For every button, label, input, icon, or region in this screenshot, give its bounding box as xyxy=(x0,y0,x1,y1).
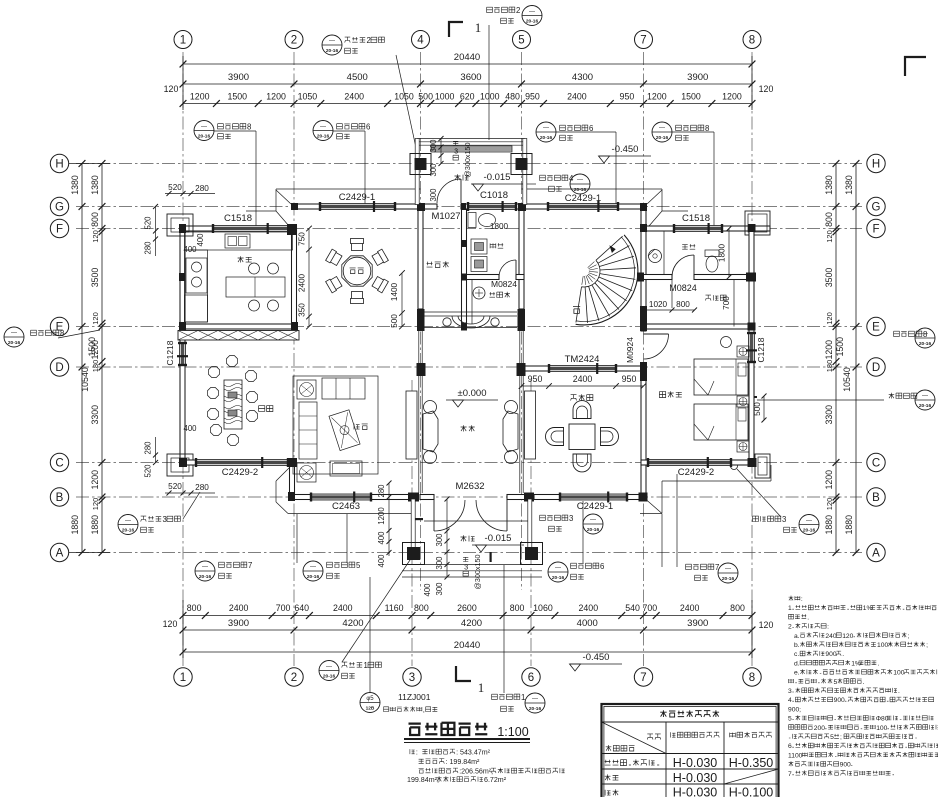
svg-text:3900: 3900 xyxy=(228,618,249,629)
structural columns xyxy=(179,203,757,502)
bottom dimension row detail xyxy=(180,603,756,619)
svg-text:;: ; xyxy=(926,642,928,649)
svg-text:H: H xyxy=(872,159,880,171)
svg-text:3900: 3900 xyxy=(687,72,708,83)
svg-text:5: 5 xyxy=(834,679,838,686)
svg-text:20-16: 20-16 xyxy=(587,527,600,533)
svg-text:900: 900 xyxy=(825,651,836,658)
svg-text:M0824: M0824 xyxy=(669,283,697,293)
svg-text:520: 520 xyxy=(144,464,153,478)
svg-text:5: 5 xyxy=(356,561,361,570)
svg-text:7: 7 xyxy=(715,563,719,572)
label elder room xyxy=(659,391,681,397)
svg-text:1500: 1500 xyxy=(227,92,247,102)
svg-text:120: 120 xyxy=(842,633,853,640)
svg-text:—: — xyxy=(201,124,207,130)
svg-text:300: 300 xyxy=(435,582,444,596)
wall x643 D to B xyxy=(641,366,646,500)
svg-text:800: 800 xyxy=(90,212,100,227)
level -0.450 bottom xyxy=(570,652,623,671)
corner mark top right xyxy=(905,57,926,76)
north porch column frames and cores xyxy=(410,154,532,175)
svg-text:e.: e. xyxy=(794,670,800,677)
svg-text:7: 7 xyxy=(640,35,646,47)
svg-text:C2463: C2463 xyxy=(332,501,360,512)
svg-text:900: 900 xyxy=(834,697,845,704)
svg-text:C: C xyxy=(872,458,880,470)
wall F kitchen with window C1518 xyxy=(180,226,213,231)
label dining xyxy=(350,268,364,274)
top dimension row detail xyxy=(164,84,774,107)
svg-text:1: 1 xyxy=(478,680,485,695)
right dimension column outer xyxy=(835,160,859,556)
svg-text:4000: 4000 xyxy=(577,618,598,629)
top dimension row axis spans xyxy=(180,72,756,87)
svg-text:1060: 1060 xyxy=(533,603,553,613)
section marker 1 top xyxy=(449,20,481,37)
canopy outline southeast terrace xyxy=(640,465,771,567)
svg-text:620: 620 xyxy=(460,92,475,102)
svg-text:2400: 2400 xyxy=(298,273,307,292)
svg-text:240: 240 xyxy=(825,633,836,640)
svg-text:4200: 4200 xyxy=(342,618,363,629)
svg-text:520: 520 xyxy=(168,482,182,491)
left dimension column outer xyxy=(68,160,110,556)
dims 1400 500 leisure bar xyxy=(390,270,405,329)
svg-text:900: 900 xyxy=(840,762,851,769)
stair hall east wall x643 xyxy=(641,209,646,331)
svg-text:300: 300 xyxy=(429,139,438,153)
svg-text:—: — xyxy=(543,126,549,132)
svg-text:C2429-1: C2429-1 xyxy=(565,193,601,204)
svg-text:120: 120 xyxy=(825,498,834,511)
svg-text:1880: 1880 xyxy=(90,515,100,535)
svg-text:400: 400 xyxy=(196,233,205,247)
callout waiqiang dayang 5 bottom-left xyxy=(303,514,361,581)
wall axis4 vertical bar room west xyxy=(418,209,423,309)
closet walls xyxy=(672,280,734,327)
svg-text:3900: 3900 xyxy=(228,72,249,83)
svg-text:300: 300 xyxy=(435,556,444,570)
svg-text:7: 7 xyxy=(640,672,646,684)
svg-text:M0824: M0824 xyxy=(491,279,517,289)
svg-text:100: 100 xyxy=(876,725,887,732)
svg-text:.: . xyxy=(898,688,900,695)
callout 11ZJ001 step detail xyxy=(360,577,437,714)
columns at E bar xyxy=(417,309,425,331)
svg-text:500: 500 xyxy=(418,92,433,102)
svg-text:1: 1 xyxy=(788,605,792,612)
basin niche wall master bath xyxy=(663,231,665,275)
svg-text:—: — xyxy=(329,39,335,45)
svg-text:H-0.030: H-0.030 xyxy=(673,786,718,797)
callout waiqiang dayang 8 top-left xyxy=(194,121,256,227)
elder room beds xyxy=(694,359,748,440)
planter hatch band below E xyxy=(178,331,299,341)
svg-text:-0.450: -0.450 xyxy=(612,144,639,155)
label leisure bar xyxy=(427,261,449,267)
floor level table xyxy=(602,704,779,797)
public wc fixtures xyxy=(471,239,487,272)
south porch column frames xyxy=(403,543,543,565)
window C1218 west wall xyxy=(180,343,186,365)
svg-text:—: — xyxy=(806,518,812,524)
wall gongwei west x464 xyxy=(462,209,467,327)
svg-text:1000: 1000 xyxy=(480,92,500,102)
svg-text:C2429-2: C2429-2 xyxy=(222,467,258,478)
svg-text:1200: 1200 xyxy=(824,340,834,360)
wall B door opening M2632 and right part xyxy=(420,495,434,500)
svg-text:M2632: M2632 xyxy=(455,481,484,492)
svg-text:5: 5 xyxy=(788,716,792,723)
svg-text:—: — xyxy=(11,331,17,337)
svg-text:20-16: 20-16 xyxy=(198,134,211,140)
svg-text:120: 120 xyxy=(164,84,179,94)
dims 520 280 bottom-left xyxy=(165,482,215,496)
wall G porch section xyxy=(423,204,437,209)
svg-text:C1218: C1218 xyxy=(756,337,766,362)
window C1018 on G xyxy=(468,204,516,210)
svg-text:700: 700 xyxy=(276,603,291,613)
svg-text:12B: 12B xyxy=(366,706,375,712)
svg-text:4200: 4200 xyxy=(461,618,482,629)
svg-text:700: 700 xyxy=(643,603,658,613)
svg-text:120: 120 xyxy=(91,230,100,243)
callout waiqiang dayang 8 left E xyxy=(4,327,100,347)
svg-text:2: 2 xyxy=(516,6,520,15)
svg-text:20-16: 20-16 xyxy=(552,575,565,581)
dims 950 2400 950 under TM2424 xyxy=(519,374,647,389)
master bath partition y277 xyxy=(641,275,672,280)
svg-text:C2429-1: C2429-1 xyxy=(577,501,613,512)
svg-text:—: — xyxy=(532,697,538,703)
callout waiqiang dayang 8 right E xyxy=(894,328,935,348)
window C2429-1 on G left xyxy=(320,204,395,210)
svg-text:8: 8 xyxy=(247,123,251,132)
svg-text:1400: 1400 xyxy=(390,282,399,301)
label C2429-1 left xyxy=(339,192,375,203)
wall B left with window C2463 xyxy=(290,495,312,500)
gongwei partition wall y277 xyxy=(464,275,499,280)
svg-text:1%: 1% xyxy=(851,660,861,667)
svg-text:280: 280 xyxy=(195,483,209,492)
callout waiqiang dayang 4 porch xyxy=(524,174,590,194)
svg-text:1200: 1200 xyxy=(647,92,667,102)
master bath toilet xyxy=(705,250,719,272)
svg-text:1020: 1020 xyxy=(649,300,668,309)
dims 520 280 vertical near C xyxy=(144,437,159,478)
svg-text:1200: 1200 xyxy=(266,92,286,102)
svg-text:180: 180 xyxy=(825,360,834,373)
svg-text:1000: 1000 xyxy=(435,92,455,102)
svg-text:1: 1 xyxy=(180,672,186,684)
dim 1800 master bath xyxy=(718,226,732,280)
svg-text:180: 180 xyxy=(91,360,100,373)
svg-text:.: . xyxy=(863,679,865,686)
east wing E wall xyxy=(641,324,754,329)
svg-text:H-0.030: H-0.030 xyxy=(673,771,718,785)
svg-text:6: 6 xyxy=(600,562,604,571)
svg-text:-0.015: -0.015 xyxy=(484,172,511,183)
svg-text:G: G xyxy=(872,202,881,214)
chimney northeast xyxy=(745,211,770,235)
svg-text:20-16: 20-16 xyxy=(526,19,539,25)
callout zaoxingzhu 2 top xyxy=(322,35,418,157)
svg-text:20-16: 20-16 xyxy=(323,674,336,680)
porch side sub dims xyxy=(377,481,392,568)
notes shuoming right xyxy=(788,596,938,778)
svg-text:3600: 3600 xyxy=(460,72,481,83)
svg-text:20-16: 20-16 xyxy=(122,528,135,534)
chimney southeast xyxy=(755,454,770,478)
svg-text:—: — xyxy=(922,394,928,400)
svg-text:: 199.84m²: : 199.84m² xyxy=(446,758,481,766)
svg-text:20440: 20440 xyxy=(454,640,480,651)
svg-text:120: 120 xyxy=(825,230,834,243)
svg-text:D: D xyxy=(55,362,63,374)
living room sofa xyxy=(299,378,365,459)
level -0.450 top xyxy=(599,144,652,163)
svg-text:,: , xyxy=(423,707,425,714)
svg-text:3: 3 xyxy=(788,688,792,695)
living room coffee table xyxy=(330,461,362,476)
callout zaoxingzhu 3 left B xyxy=(118,492,200,535)
svg-text:d.: d. xyxy=(794,660,800,667)
callout waiqiang dayang 6 top-right xyxy=(536,122,616,204)
svg-text:400: 400 xyxy=(377,531,386,545)
svg-text:φ5: φ5 xyxy=(366,696,374,702)
master bath washbasin xyxy=(648,249,662,263)
svg-text:2: 2 xyxy=(291,35,297,47)
svg-text:640: 640 xyxy=(294,603,309,613)
svg-text:—: — xyxy=(320,124,326,130)
svg-text:1880: 1880 xyxy=(844,515,854,535)
svg-text:1880: 1880 xyxy=(824,515,834,535)
svg-text:1380: 1380 xyxy=(70,175,80,195)
svg-text:20-16: 20-16 xyxy=(199,574,212,580)
svg-text:TM2424: TM2424 xyxy=(565,354,600,365)
svg-text:280: 280 xyxy=(144,441,153,455)
svg-text:F: F xyxy=(872,224,879,236)
door M1027 leaf and arc xyxy=(437,179,461,203)
svg-text:950: 950 xyxy=(525,92,540,102)
svg-text:2400: 2400 xyxy=(573,374,593,384)
svg-text:20-16: 20-16 xyxy=(803,528,816,534)
label living room xyxy=(354,424,368,430)
svg-text:20-16: 20-16 xyxy=(722,576,735,582)
svg-text:6: 6 xyxy=(528,672,534,684)
svg-text:C2429-1: C2429-1 xyxy=(339,192,375,203)
svg-text:800: 800 xyxy=(730,603,745,613)
svg-text:350: 350 xyxy=(298,303,307,317)
svg-text:1500: 1500 xyxy=(835,337,845,357)
svg-text:2400: 2400 xyxy=(579,603,599,613)
svg-text:120: 120 xyxy=(91,498,100,511)
svg-text:2: 2 xyxy=(788,624,792,631)
svg-text:10540: 10540 xyxy=(842,367,852,392)
svg-text:2400: 2400 xyxy=(229,603,249,613)
svg-text:—: — xyxy=(555,566,561,572)
svg-text:3: 3 xyxy=(569,514,573,523)
right dimension column inner xyxy=(824,160,839,556)
svg-text:300: 300 xyxy=(435,533,444,547)
label public wc xyxy=(490,243,503,248)
washbasin laundry area xyxy=(473,287,485,299)
svg-text:1050: 1050 xyxy=(298,92,318,102)
svg-text:1: 1 xyxy=(364,661,368,670)
elder room stool xyxy=(721,337,732,348)
east wing F wall with window C1518 xyxy=(641,226,674,231)
svg-text::206.56m²,: :206.56m², xyxy=(459,768,493,776)
svg-text:750: 750 xyxy=(298,232,307,246)
labels tang wu hall xyxy=(461,425,475,431)
svg-text:1%: 1% xyxy=(863,605,873,612)
elder room south wall C2429-2 xyxy=(641,460,648,465)
svg-text:-0.450: -0.450 xyxy=(583,652,610,663)
svg-text:500: 500 xyxy=(753,402,762,416)
svg-text:2400: 2400 xyxy=(567,92,587,102)
svg-text:1100: 1100 xyxy=(788,752,803,759)
toilet public wc xyxy=(468,213,496,228)
svg-text:;: ; xyxy=(908,633,910,640)
svg-text:—: — xyxy=(125,518,131,524)
svg-text:280: 280 xyxy=(195,184,209,193)
svg-text:800: 800 xyxy=(510,603,525,613)
tea room stools xyxy=(208,356,258,446)
svg-text:3300: 3300 xyxy=(90,405,100,425)
svg-text:Φ80: Φ80 xyxy=(876,716,889,723)
callout waiqiang dayang 6 top-left xyxy=(313,121,370,209)
svg-text:500: 500 xyxy=(390,314,399,328)
svg-text:1200: 1200 xyxy=(90,470,100,490)
svg-text:C1518: C1518 xyxy=(682,213,710,224)
svg-text:3: 3 xyxy=(782,515,786,524)
label shang (up) xyxy=(573,307,580,314)
spiral staircase xyxy=(576,235,638,325)
svg-text:c.: c. xyxy=(794,651,799,658)
callout sanshui dayang right D xyxy=(752,390,935,410)
living room armchairs xyxy=(297,380,316,482)
level -0.015 south porch xyxy=(461,533,525,552)
north porch slab and steps xyxy=(415,139,527,205)
svg-text:1:100: 1:100 xyxy=(497,725,528,739)
svg-text:C1018: C1018 xyxy=(480,190,508,201)
svg-text:480: 480 xyxy=(505,92,520,102)
window C2429-1 on G right xyxy=(548,204,618,210)
svg-text:B: B xyxy=(56,492,64,504)
bottom dimension row axis spans xyxy=(163,618,774,633)
door M0824 master bath xyxy=(672,255,694,277)
svg-text:1800: 1800 xyxy=(490,222,509,231)
svg-text:1800: 1800 xyxy=(718,243,727,262)
svg-text:800: 800 xyxy=(187,603,202,613)
svg-text:120: 120 xyxy=(759,84,774,94)
bottom dimension overall 20440 xyxy=(180,600,756,658)
svg-text:20-16: 20-16 xyxy=(317,134,330,140)
chimney west at C xyxy=(167,454,193,476)
dim 500 elder room xyxy=(753,394,767,423)
svg-text:20440: 20440 xyxy=(454,52,480,63)
callout chengpin goujian 3 right B xyxy=(731,463,820,535)
svg-text:.: . xyxy=(878,660,880,667)
svg-text:7: 7 xyxy=(788,771,792,778)
callout waiqiang dayang 7 bottom-left xyxy=(195,514,297,581)
axis bubbles left xyxy=(50,154,68,561)
svg-text:280: 280 xyxy=(144,241,153,255)
svg-text:280: 280 xyxy=(377,484,386,498)
svg-text:8: 8 xyxy=(749,672,755,684)
svg-text:-0.015: -0.015 xyxy=(485,533,512,544)
svg-text:E: E xyxy=(872,322,880,334)
svg-text:3300: 3300 xyxy=(824,405,834,425)
label chess room xyxy=(571,394,593,400)
svg-text:a.: a. xyxy=(794,633,800,640)
living room tv cabinet xyxy=(329,410,360,451)
svg-text:C1518: C1518 xyxy=(224,213,252,224)
kitchen east wall xyxy=(292,231,297,327)
canopy outline north xyxy=(246,189,688,226)
axis bubbles right xyxy=(867,154,885,561)
axis bubbles top xyxy=(174,31,761,49)
svg-text:;: ; xyxy=(840,734,842,741)
living west wall C to B xyxy=(290,465,295,495)
axis grid lines xyxy=(76,52,862,666)
svg-text:1500: 1500 xyxy=(87,337,97,357)
walls axis4/5 E to D thin xyxy=(419,331,523,365)
svg-text:950: 950 xyxy=(622,374,637,384)
label closet xyxy=(706,295,727,300)
svg-text:2600: 2600 xyxy=(457,603,477,613)
svg-text:7: 7 xyxy=(248,561,252,570)
svg-text:20-16: 20-16 xyxy=(656,135,669,141)
svg-text:4: 4 xyxy=(788,697,792,704)
svg-text:2400: 2400 xyxy=(333,603,353,613)
svg-text:—: — xyxy=(202,565,208,571)
svg-text:H: H xyxy=(55,159,63,171)
svg-text:±0.000: ±0.000 xyxy=(458,388,487,399)
svg-text:800: 800 xyxy=(676,300,690,309)
svg-text:A: A xyxy=(872,548,880,560)
svg-text:100: 100 xyxy=(893,670,904,677)
svg-text:—: — xyxy=(725,567,731,573)
svg-text:900;: 900; xyxy=(788,706,801,713)
west wall of kitchen and tea room xyxy=(180,229,185,344)
svg-text:11ZJ001: 11ZJ001 xyxy=(398,692,431,702)
svg-text:400: 400 xyxy=(183,245,197,254)
svg-text::: : xyxy=(416,749,418,757)
svg-text:2: 2 xyxy=(367,36,371,45)
svg-text:300: 300 xyxy=(429,163,438,177)
axis bubbles bottom xyxy=(174,668,761,686)
svg-text:—: — xyxy=(310,565,316,571)
svg-text:1: 1 xyxy=(521,693,525,702)
svg-text:8: 8 xyxy=(923,330,927,339)
south porch slab steps doors xyxy=(402,499,542,577)
dining table and chairs xyxy=(326,239,389,304)
svg-text:—: — xyxy=(529,9,535,15)
window C2429-1 on B right xyxy=(560,494,627,500)
svg-text:@300x150: @300x150 xyxy=(473,555,482,590)
dims 400 kitchen offsets xyxy=(183,233,205,254)
svg-text:20-16: 20-16 xyxy=(8,340,21,346)
svg-text:4: 4 xyxy=(417,35,424,47)
south porch step dims xyxy=(423,497,450,597)
svg-text:5: 5 xyxy=(518,35,524,47)
tea room south wall C with window C2429-2 xyxy=(180,460,196,465)
svg-text:1380: 1380 xyxy=(90,175,100,195)
wall D chess room top with window TM2424 xyxy=(524,366,549,371)
svg-text:1380: 1380 xyxy=(824,175,834,195)
